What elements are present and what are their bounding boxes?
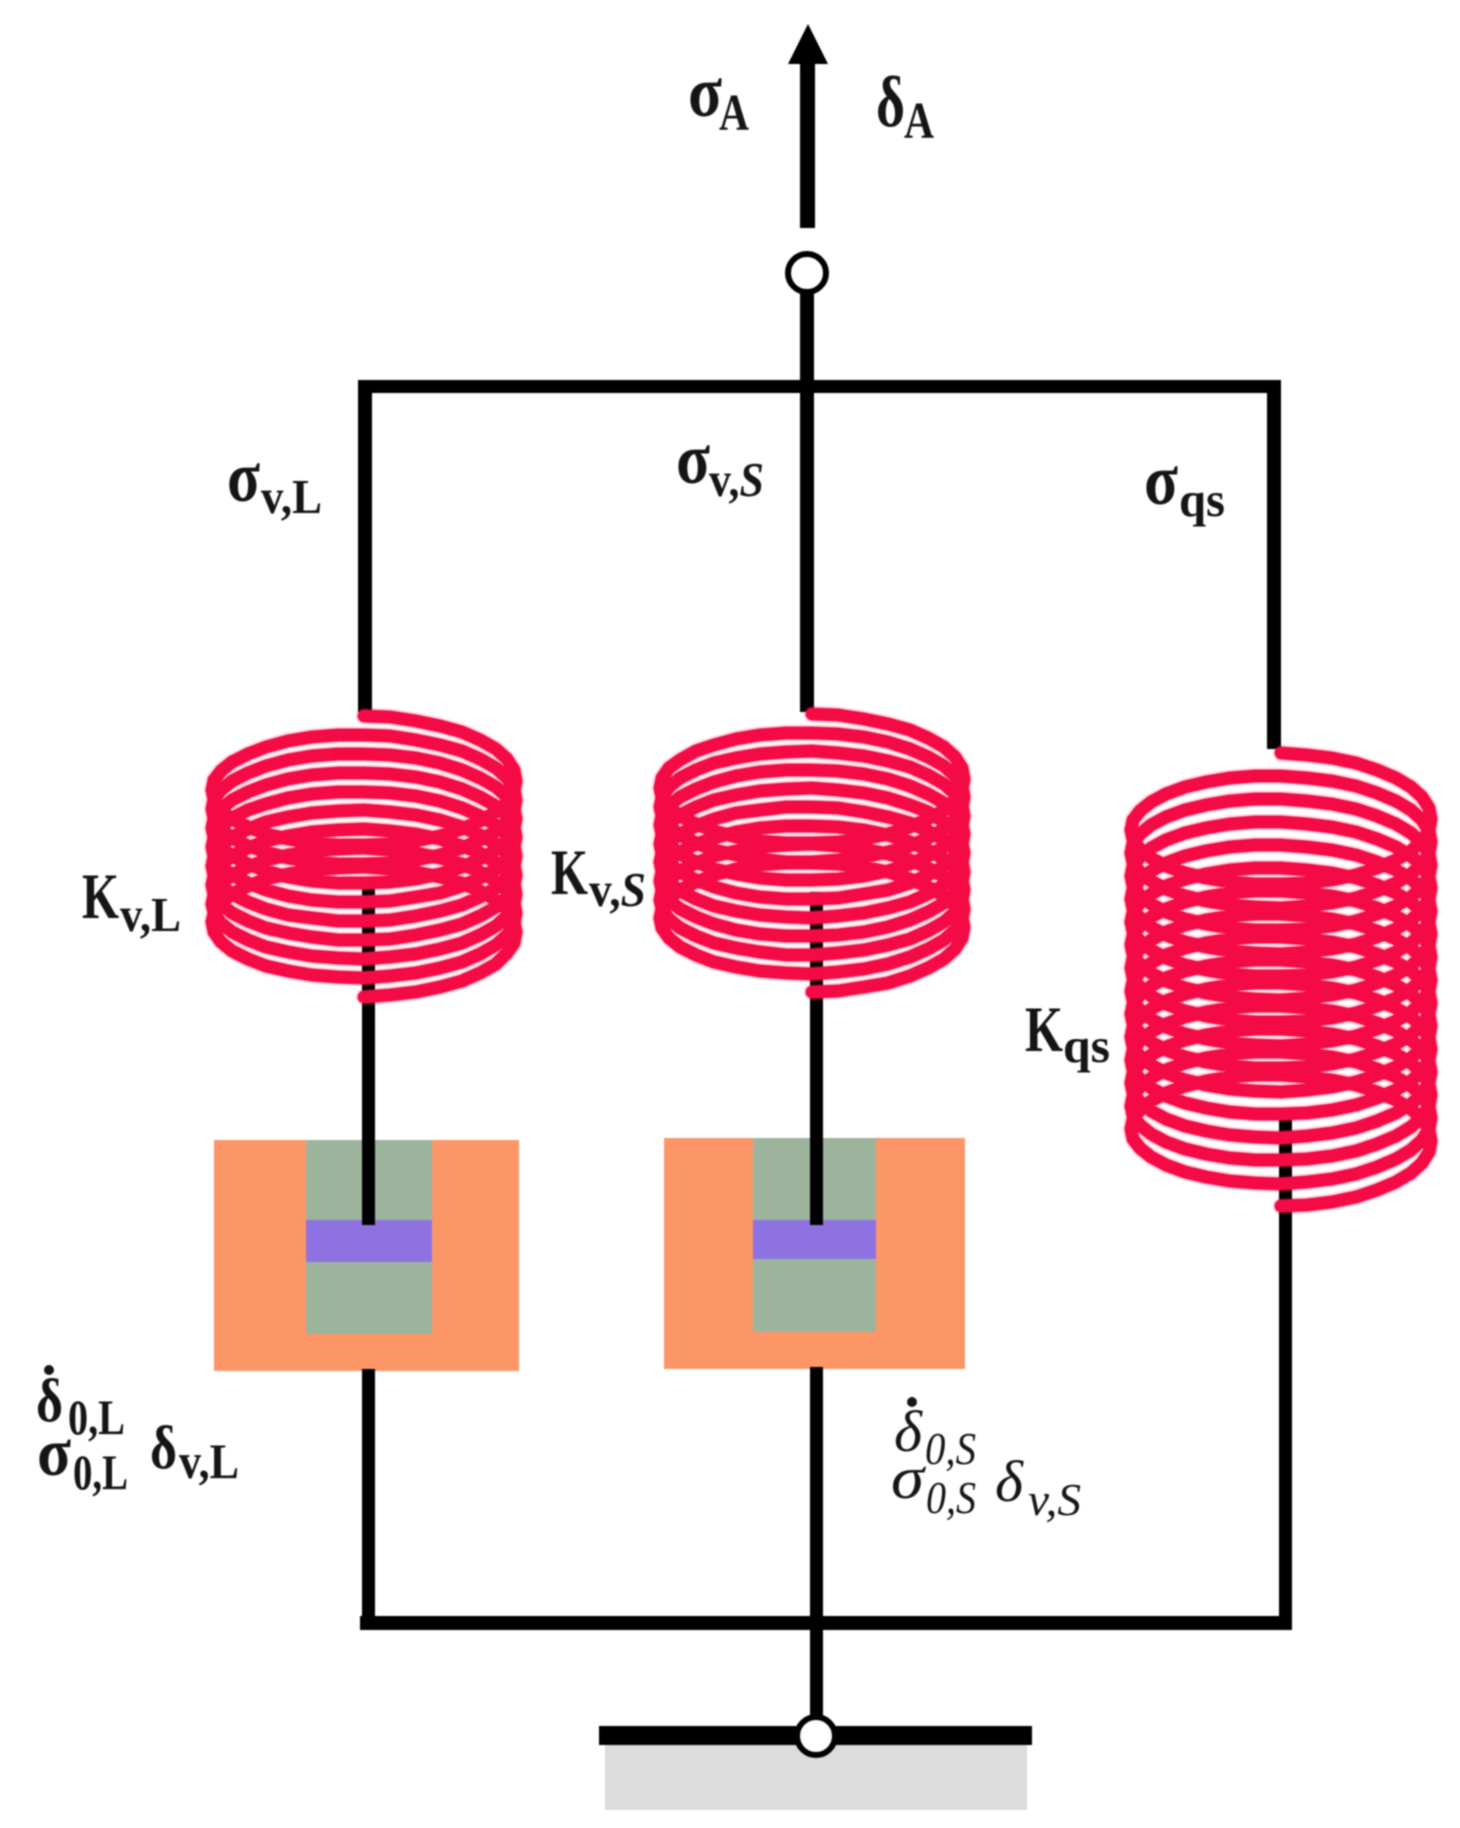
wire left lower rod <box>362 1369 375 1630</box>
wire right branch vertical <box>1267 380 1281 749</box>
svg-text:qs: qs <box>1179 472 1225 527</box>
label K_v,L <box>82 861 181 942</box>
svg-text:σ: σ <box>676 419 710 499</box>
svg-text:v,L: v,L <box>261 469 322 524</box>
label sigma_qs <box>1144 440 1225 527</box>
svg-text:δ: δ <box>995 1449 1024 1514</box>
label sigma_0,L <box>37 1414 128 1500</box>
svg-text:δ: δ <box>876 62 905 142</box>
label delta-dot_0,S <box>894 1397 976 1474</box>
arrow (applied load) <box>788 24 828 228</box>
damper S cylinder (orange body) <box>664 1138 965 1369</box>
label sigma_0,S <box>891 1445 976 1523</box>
svg-text:0,S: 0,S <box>926 1472 976 1523</box>
svg-text:qs: qs <box>1063 1018 1110 1073</box>
wire bottom horizontal bus <box>360 1616 1288 1630</box>
wire top horizontal bus <box>358 380 1281 393</box>
damper L fluid chamber (green) <box>306 1140 432 1334</box>
ground top bar <box>599 1726 1032 1745</box>
wire right inner rod (spring to bottom bus) <box>1279 1116 1292 1630</box>
svg-text:δ: δ <box>150 1415 177 1482</box>
label sigma_A <box>688 52 749 142</box>
label K_v,S <box>551 837 646 917</box>
wire middle lower rod <box>810 1367 823 1630</box>
svg-text:A: A <box>719 85 749 142</box>
svg-text:K: K <box>82 861 119 933</box>
label delta_v,S <box>995 1449 1081 1525</box>
svg-text:σ: σ <box>688 52 722 132</box>
damper S fluid chamber (green) <box>753 1138 876 1332</box>
spring K_v,S coil <box>660 714 964 992</box>
wire left inner rod (spring to piston) <box>362 878 375 1225</box>
damper L cylinder (orange body) <box>214 1140 519 1371</box>
svg-text:0,L: 0,L <box>73 1444 128 1500</box>
damper S rod tip <box>810 1138 823 1225</box>
svg-text:σ: σ <box>891 1445 927 1511</box>
svg-text:σ: σ <box>1144 440 1178 520</box>
wire center vertical from node to middle spring <box>800 292 814 712</box>
damper S piston (purple) <box>753 1220 876 1259</box>
spring K_v,L coil <box>212 716 516 997</box>
wire middle inner rod (spring to piston) <box>810 892 823 1225</box>
label delta_A <box>876 62 934 150</box>
spring K_qs coil <box>1131 753 1431 1206</box>
ground block (gray) <box>605 1745 1027 1810</box>
label sigma_v,S <box>676 419 764 507</box>
label sigma_v,L <box>227 437 322 524</box>
svg-text:v,S: v,S <box>589 862 646 917</box>
wire left branch vertical <box>358 380 372 712</box>
svg-text:v,L: v,L <box>179 1433 239 1489</box>
svg-text:v,S: v,S <box>709 452 764 507</box>
svg-text:0,L: 0,L <box>68 1389 125 1445</box>
svg-text:σ: σ <box>227 437 260 517</box>
svg-text:v,L: v,L <box>120 887 181 942</box>
svg-text:v,S: v,S <box>1028 1474 1081 1525</box>
svg-text:K: K <box>1025 994 1063 1066</box>
node bottom terminal circle <box>797 1717 835 1755</box>
wire ground stem <box>810 1623 823 1723</box>
label K_qs <box>1025 994 1110 1073</box>
label delta-dot_0,L <box>36 1365 125 1445</box>
svg-text:A: A <box>904 93 934 150</box>
label delta_v,L <box>150 1415 239 1489</box>
svg-text:σ: σ <box>37 1414 71 1490</box>
svg-text:0,S: 0,S <box>925 1423 976 1474</box>
damper L rod tip <box>362 1140 375 1225</box>
damper L piston (purple) <box>306 1220 432 1262</box>
svg-text:K: K <box>551 837 588 909</box>
node top terminal circle <box>788 254 826 292</box>
